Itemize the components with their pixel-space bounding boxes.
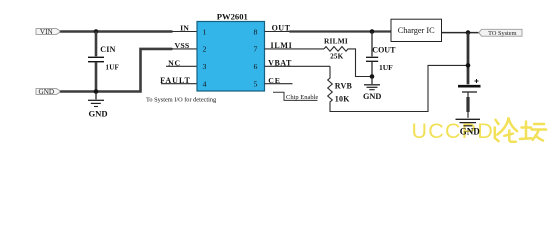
wire pin stub NC (166, 65, 197, 67)
wire battery drop (467, 33, 470, 85)
svg-text:COUT: COUT (372, 46, 396, 55)
svg-text:CE: CE (268, 76, 280, 85)
svg-text:1UF: 1UF (379, 63, 393, 72)
IC U1 PW2601 (197, 11, 265, 91)
svg-text:25K: 25K (330, 53, 344, 61)
svg-text:1UF: 1UF (106, 63, 119, 71)
svg-text:UCCPD: UCCPD (412, 119, 494, 143)
svg-text:VSS: VSS (175, 41, 190, 50)
net label Chip Enable (273, 92, 318, 101)
svg-text:RILMI: RILMI (324, 36, 348, 45)
svg-text:8: 8 (254, 27, 258, 36)
svg-text:NC: NC (168, 58, 181, 67)
svg-text:VBAT: VBAT (268, 58, 292, 67)
svg-text:TO System: TO System (488, 30, 516, 37)
svg-text:GND: GND (460, 127, 481, 137)
wire pin stub FAULT (161, 83, 197, 85)
svg-text:RVB: RVB (335, 81, 353, 90)
svg-text:6: 6 (254, 62, 258, 71)
power flag GND (36, 88, 61, 96)
capacitor COUT (366, 32, 396, 77)
ground symbol under COUT (364, 77, 380, 90)
junction node VIN/CIN (94, 29, 99, 34)
battery BT1 (458, 79, 481, 118)
watermark UCCPD论坛 (412, 118, 547, 143)
wire pin stub CE (265, 83, 293, 85)
resistor RILMI (324, 36, 372, 76)
junction node COUT/RILMI/GND (370, 74, 375, 79)
svg-text:7: 7 (254, 45, 258, 54)
svg-text:OUT: OUT (272, 24, 291, 33)
ground symbol under CIN (88, 92, 104, 107)
junction node GND/CIN (94, 89, 99, 94)
wire charger to TO System (442, 32, 479, 34)
svg-text:PW2601: PW2601 (217, 11, 248, 21)
wire OUT net (290, 30, 391, 32)
wire pin stub IN (172, 31, 198, 33)
svg-text:FAULT: FAULT (160, 76, 191, 85)
svg-text:To System I/O for detecting: To System I/O for detecting (146, 96, 217, 103)
svg-text:Chip Enable: Chip Enable (286, 94, 318, 101)
svg-text:VIN: VIN (40, 28, 54, 36)
wire pin stub VSS (172, 48, 198, 50)
svg-text:1: 1 (203, 27, 207, 36)
junction node VBAT/battery (466, 63, 471, 68)
wire pin stub ILMI (265, 48, 325, 50)
block Charger IC (391, 19, 442, 41)
wire pin stub OUT (265, 31, 291, 33)
flag TO System (479, 29, 522, 37)
ground symbol battery (456, 119, 481, 126)
svg-text:GND: GND (363, 92, 381, 101)
svg-text:3: 3 (203, 62, 207, 71)
wire VIN rail (61, 30, 172, 33)
svg-text:5: 5 (254, 80, 258, 89)
svg-text:ILMI: ILMI (271, 41, 293, 50)
svg-text:IN: IN (180, 24, 189, 33)
svg-text:4: 4 (203, 80, 207, 89)
capacitor C1 CIN (88, 32, 119, 92)
junction node battery top (466, 30, 471, 35)
svg-text:GND: GND (88, 108, 107, 118)
resistor RVB (328, 65, 468, 111)
junction node OUT/COUT (370, 29, 375, 34)
svg-text:CIN: CIN (100, 45, 115, 54)
svg-text:2: 2 (203, 45, 207, 54)
svg-text:GND: GND (39, 88, 55, 96)
svg-text:Charger IC: Charger IC (398, 26, 435, 35)
wire GND rail to VSS (61, 49, 172, 92)
svg-text:10K: 10K (335, 94, 350, 103)
wire pin stub VBAT (265, 65, 331, 67)
power flag VIN (36, 28, 61, 36)
